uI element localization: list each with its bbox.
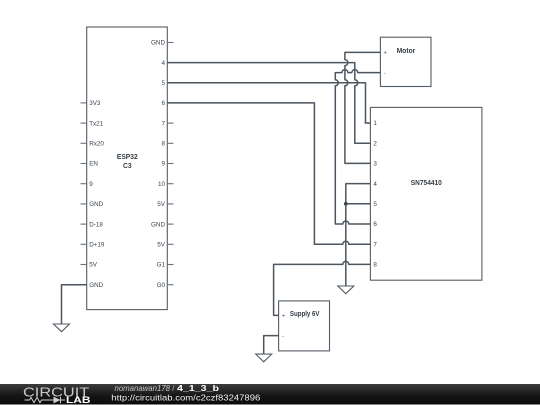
svg-text:-: - (384, 71, 386, 77)
svg-text:6: 6 (373, 221, 377, 228)
svg-text:Tx21: Tx21 (89, 120, 103, 127)
svg-text:+: + (384, 50, 387, 56)
svg-text:5: 5 (161, 80, 165, 87)
svg-text:3: 3 (373, 161, 377, 168)
svg-text:Supply 6V: Supply 6V (290, 311, 320, 318)
svg-text:5: 5 (373, 201, 377, 208)
svg-text:1: 1 (373, 120, 377, 127)
svg-text:5V: 5V (157, 201, 166, 208)
svg-text:10: 10 (158, 181, 166, 188)
svg-text:-: - (282, 334, 284, 340)
svg-text:4_1_3_b: 4_1_3_b (177, 384, 219, 393)
svg-text:7: 7 (373, 241, 377, 248)
svg-text:nomanawan178: nomanawan178 (115, 384, 171, 393)
svg-text:Rx20: Rx20 (89, 141, 104, 148)
svg-text:LAB: LAB (66, 395, 91, 405)
svg-text:http://circuitlab.com/c2czf832: http://circuitlab.com/c2czf83247896 (111, 394, 261, 403)
svg-text:7: 7 (161, 120, 165, 127)
svg-text:4: 4 (373, 181, 377, 188)
svg-text:C3: C3 (123, 163, 132, 170)
svg-text:D+19: D+19 (89, 242, 105, 249)
svg-text:3V3: 3V3 (89, 100, 101, 107)
svg-text:4: 4 (161, 60, 165, 67)
svg-text:9: 9 (89, 181, 93, 188)
svg-text:5V: 5V (89, 262, 98, 269)
svg-text:D-18: D-18 (89, 221, 103, 228)
svg-text:SN754410: SN754410 (411, 180, 442, 187)
svg-text:8: 8 (373, 262, 377, 269)
svg-text:EN: EN (89, 161, 98, 168)
svg-text:GND: GND (89, 201, 103, 208)
svg-text:GND: GND (151, 221, 165, 228)
svg-text:ESP32: ESP32 (117, 154, 138, 161)
svg-text:9: 9 (161, 161, 165, 168)
svg-text:Motor: Motor (397, 48, 416, 55)
svg-text:6: 6 (161, 100, 165, 107)
svg-text:8: 8 (161, 141, 165, 148)
svg-text:5V: 5V (157, 242, 166, 249)
svg-text:GND: GND (89, 282, 103, 289)
svg-text:G1: G1 (157, 262, 166, 269)
svg-text:G0: G0 (157, 282, 166, 289)
svg-text:2: 2 (373, 140, 377, 147)
svg-text:+: + (282, 313, 285, 319)
svg-text:GND: GND (151, 40, 165, 47)
